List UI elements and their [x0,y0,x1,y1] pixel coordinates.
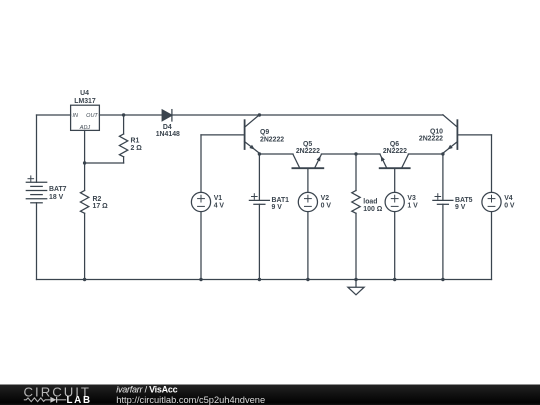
svg-text:http://circuitlab.com/c5p2uh4n: http://circuitlab.com/c5p2uh4ndvene [116,395,265,405]
wire mid rail center [321,153,380,155]
svg-text:0 V: 0 V [321,203,332,210]
svg-text:ADJ: ADJ [79,125,91,131]
battery BAT1 [249,194,269,205]
svg-text:ivarfarr / VisAcc: ivarfarr / VisAcc [116,384,177,394]
svg-text:LAB: LAB [67,395,92,405]
svg-text:BAT7: BAT7 [49,186,67,193]
transistor Q9 [201,115,259,153]
node Q9 collector [258,113,261,116]
ground [348,280,364,295]
svg-text:V2: V2 [321,195,330,202]
svg-text:Q9: Q9 [260,129,269,136]
svg-text:18 V: 18 V [49,194,64,201]
svg-text:2N2222: 2N2222 [260,136,284,143]
battery BAT7 [26,176,46,203]
node Q9 emitter [258,152,261,155]
wire battery bottom vertical [36,203,38,280]
transistor Q10 [443,115,492,153]
svg-text:D4: D4 [163,124,172,131]
wire IN to battery top [37,114,71,116]
wire ADJ down [84,130,86,163]
op-amp U1 box: regulator U4 LM317 body [71,105,100,130]
svg-text:load: load [363,199,377,206]
wire V1 bottom [200,212,202,280]
wire V4 bottom [491,212,493,280]
node ground [354,278,357,281]
svg-text:2 Ω: 2 Ω [131,145,143,152]
svg-text:LM317: LM317 [74,98,96,105]
svg-text:Q10: Q10 [430,128,443,135]
logo resistor zigzag [24,398,51,402]
svg-text:2N2222: 2N2222 [383,148,407,155]
wire top rail [99,114,443,116]
voltage source V2 [298,192,317,211]
node Q10 emitter [441,152,444,155]
svg-text:1N4148: 1N4148 [156,131,180,138]
wire bottom rail [37,279,492,281]
svg-text:17 Ω: 17 Ω [93,203,109,210]
wire mid rail right [408,153,443,155]
wire BAT5 bottom [442,204,444,279]
svg-text:BAT5: BAT5 [455,197,473,204]
battery BAT5 [433,194,453,205]
svg-text:100 Ω: 100 Ω [363,206,382,213]
svg-text:R2: R2 [93,196,102,203]
svg-text:OUT: OUT [86,113,98,119]
svg-text:9 V: 9 V [272,204,283,211]
diode D4 [162,110,172,121]
node V1 bottom [199,278,202,281]
wire BAT1 bottom [258,204,260,279]
node BAT5 bottom [441,278,444,281]
wire V4 top [491,135,493,193]
node R2 bottom [83,278,86,281]
wire V1 to Q9 base [200,135,202,193]
logo diode [50,397,56,403]
svg-text:V4: V4 [504,195,513,202]
resistor R2 [80,163,88,280]
node ADJ [83,161,86,164]
node load top [354,152,357,155]
svg-text:0 V: 0 V [504,203,515,210]
svg-text:1 V: 1 V [407,203,418,210]
svg-text:2N2222: 2N2222 [296,148,320,155]
wire battery top vertical [36,115,38,182]
wire V2 bottom [307,212,309,280]
svg-text:R1: R1 [131,138,140,145]
node V2 bottom [306,278,309,281]
wire V3 bottom [394,212,396,280]
svg-text:V1: V1 [214,195,223,202]
transistor Q5 [292,154,323,192]
svg-text:4 V: 4 V [214,203,225,210]
node V3 bottom [393,278,396,281]
wire mid rail left [259,153,293,155]
transistor Q6 [380,154,410,192]
voltage source V3 [385,192,404,211]
svg-text:BAT1: BAT1 [272,197,290,204]
wire Q9 emitter to BAT1 [258,154,260,200]
svg-text:IN: IN [73,113,79,119]
node BAT1 bottom [258,278,261,281]
resistor load [352,154,360,280]
resistor R1 [119,115,127,163]
wire Q10 emitter to BAT5 [442,154,444,200]
svg-text:V3: V3 [407,195,416,202]
wire ADJ to R1 bottom [85,162,124,164]
voltage source V4 [482,192,501,211]
svg-text:2N2222: 2N2222 [419,136,443,143]
svg-text:U4: U4 [80,90,89,97]
node R1 top [122,113,125,116]
voltage source V1 [191,192,210,211]
svg-text:9 V: 9 V [455,204,466,211]
